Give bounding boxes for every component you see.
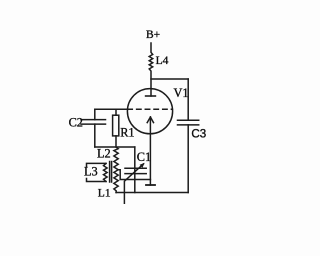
svg-text:C2: C2 — [69, 116, 83, 130]
svg-text:L3: L3 — [84, 165, 98, 179]
svg-text:R1: R1 — [120, 125, 134, 139]
svg-text:B+: B+ — [146, 29, 160, 41]
svg-text:V1: V1 — [174, 86, 189, 100]
svg-text:C3: C3 — [191, 128, 206, 141]
svg-text:L1: L1 — [98, 188, 111, 200]
svg-text:C1: C1 — [137, 150, 151, 164]
svg-text:L2: L2 — [97, 147, 111, 161]
svg-text:L4: L4 — [156, 55, 169, 67]
